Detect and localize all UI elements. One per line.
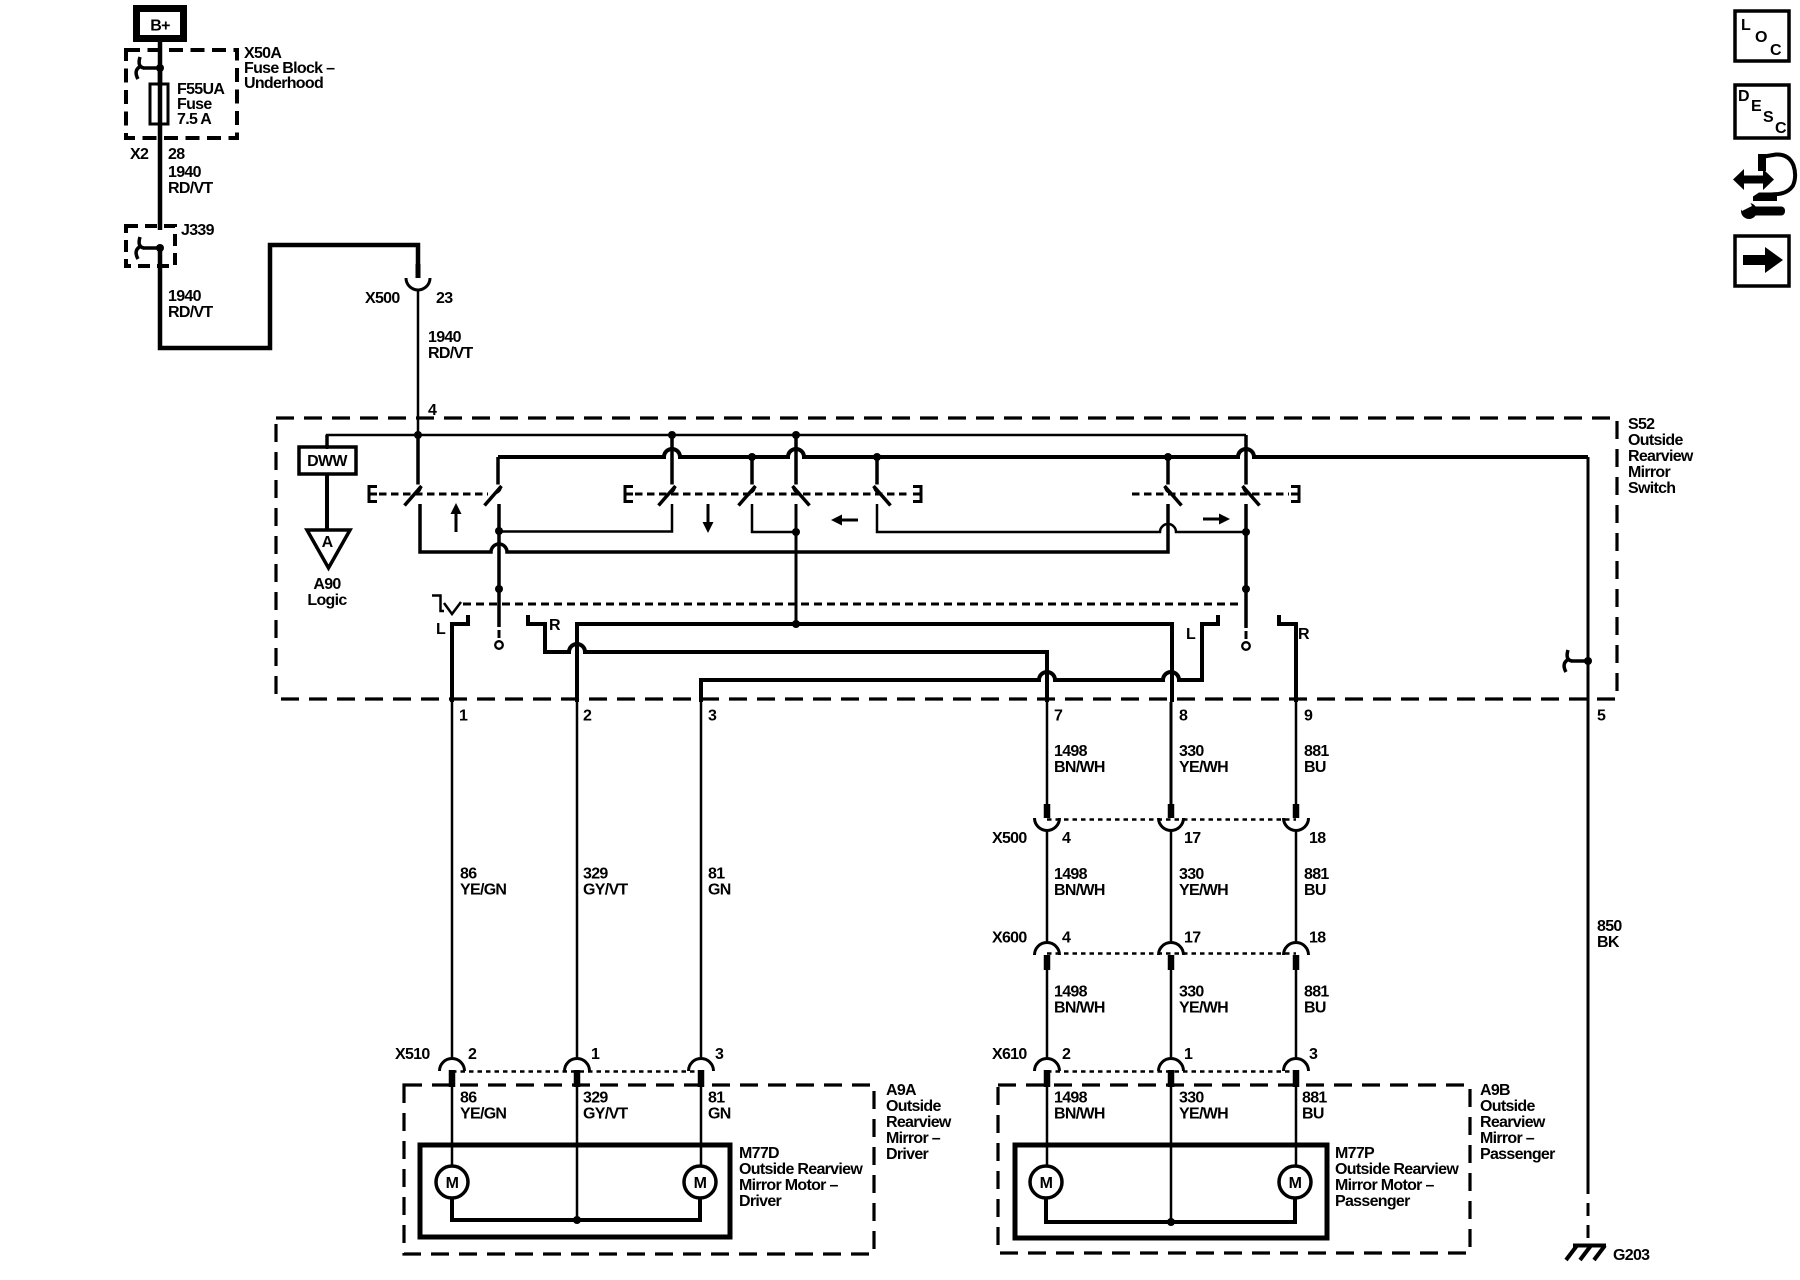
svg-text:BK: BK <box>1597 934 1620 951</box>
gang bar dashed (up pair) <box>379 493 488 496</box>
connector X2 cavity 28 labels <box>130 146 185 163</box>
wire: up-right fixed contact / left selector pole <box>497 504 501 627</box>
wire B+ to fuse block <box>158 42 163 86</box>
svg-text:L: L <box>1741 17 1751 34</box>
svg-text:E: E <box>1751 98 1762 115</box>
svg-text:881: 881 <box>1302 1090 1327 1107</box>
switch blade right-left (movable contact) <box>1165 457 1182 506</box>
svg-text:9: 9 <box>1304 708 1313 725</box>
svg-text:RD/VT: RD/VT <box>428 345 473 362</box>
connector X510 pin 2 symbol <box>440 1059 465 1088</box>
switch blade left-left (movable contact) <box>793 435 810 506</box>
wire 81 GN pin3 to X510-3 <box>700 702 703 1059</box>
connector X610 pin 1 symbol <box>1159 1059 1184 1088</box>
left selector pole lower part with open contact o <box>495 585 503 649</box>
switch blade down-right (movable contact) <box>739 457 756 506</box>
wires into M77D <box>452 1087 701 1220</box>
svg-text:18: 18 <box>1309 930 1326 947</box>
svg-text:BU: BU <box>1304 882 1326 899</box>
X600 labels <box>992 930 1326 947</box>
wire: pole-left to down-left fixed contact <box>499 504 672 532</box>
svg-text:330: 330 <box>1179 743 1204 760</box>
svg-text:3: 3 <box>715 1046 724 1063</box>
svg-text:S: S <box>1763 109 1774 126</box>
svg-text:YE/WH: YE/WH <box>1179 882 1228 899</box>
switch blade down-left (movable contact) <box>659 435 676 506</box>
svg-text:81: 81 <box>708 1090 725 1107</box>
connector X610 dashed tie line <box>1047 1070 1296 1073</box>
wire 329 GY/VT pin2 to X510-1 <box>576 702 579 1059</box>
gang bar bracket E (down-left pairs) <box>625 487 633 502</box>
svg-text:1: 1 <box>591 1046 600 1063</box>
svg-text:RD/VT: RD/VT <box>168 304 213 321</box>
svg-text:81: 81 <box>708 866 725 883</box>
svg-text:Outside: Outside <box>1628 432 1683 449</box>
node: blade down-left to power bus <box>668 431 676 439</box>
dashed wire continuation to ground <box>1587 1181 1590 1245</box>
exchange-wrench icon <box>1733 154 1795 219</box>
svg-text:Rearview: Rearview <box>1628 448 1694 465</box>
svg-text:4: 4 <box>1062 830 1071 847</box>
X500 23 labels <box>365 290 453 307</box>
F55UA label <box>177 81 225 128</box>
splice J339 dashed box <box>126 226 175 266</box>
svg-text:330: 330 <box>1179 1090 1204 1107</box>
svg-text:Outside Rearview: Outside Rearview <box>1335 1161 1459 1178</box>
M77P mirror motor box <box>1015 1145 1327 1238</box>
svg-text:329: 329 <box>583 866 608 883</box>
svg-text:GY/VT: GY/VT <box>583 1106 628 1123</box>
svg-text:X2: X2 <box>130 146 149 163</box>
connector X500 pin 4 symbol <box>1035 804 1060 830</box>
terminal hook at fuse block input <box>136 57 164 79</box>
svg-text:X500: X500 <box>365 290 400 307</box>
node: common junction passenger <box>1167 1218 1175 1226</box>
connector X610 pin 2 symbol <box>1035 1059 1060 1088</box>
svg-text:YE/GN: YE/GN <box>460 1106 506 1123</box>
wire labels inside A9A <box>460 1090 731 1123</box>
node: pin4 power junction <box>414 431 422 439</box>
connector X600 pin 17 symbol <box>1159 943 1184 971</box>
wire label 850 BK <box>1597 918 1622 951</box>
svg-text:329: 329 <box>583 1090 608 1107</box>
svg-text:DWW: DWW <box>307 453 348 470</box>
svg-text:J339: J339 <box>181 222 215 239</box>
S52 outside rearview mirror switch dashed box <box>276 418 1617 699</box>
svg-text:1940: 1940 <box>168 164 202 181</box>
selector actuator symbol <box>432 596 461 615</box>
svg-text:YE/GN: YE/GN <box>460 882 506 899</box>
connector X500 dashed tie line <box>1047 818 1296 821</box>
svg-text:B+: B+ <box>150 18 170 35</box>
connector X500 pin 17 symbol <box>1159 804 1184 830</box>
svg-text:L: L <box>1186 626 1196 643</box>
wire: down-right fixed contact <box>752 504 796 532</box>
svg-text:X510: X510 <box>395 1046 430 1063</box>
svg-text:2: 2 <box>468 1046 477 1063</box>
power bus wire (top) <box>327 435 1246 449</box>
fuse block X50A dashed box <box>126 50 237 138</box>
wire 1940 RD/VT fuse to J339 <box>158 150 163 230</box>
svg-text:Underhood: Underhood <box>244 75 323 92</box>
svg-text:Outside: Outside <box>886 1098 941 1115</box>
A90 logic triangle symbol <box>307 530 350 568</box>
X610 labels <box>992 1046 1318 1063</box>
wire through fuse <box>158 68 163 150</box>
svg-text:M: M <box>1040 1175 1053 1192</box>
ground bus wire (second) with hops <box>498 449 1588 457</box>
svg-text:BN/WH: BN/WH <box>1054 882 1105 899</box>
svg-text:Driver: Driver <box>739 1193 782 1210</box>
motor M left passenger <box>1030 1166 1062 1198</box>
svg-text:Logic: Logic <box>307 592 347 609</box>
wire labels inside A9B <box>1054 1090 1327 1123</box>
A9A outside rearview mirror driver dashed box <box>404 1085 874 1254</box>
wires X600 to X610 <box>1047 970 1296 1059</box>
wire labels 86 YE/GN 329 GY/VT 81 GN <box>460 866 731 899</box>
svg-text:A90: A90 <box>313 576 341 593</box>
svg-text:5: 5 <box>1597 708 1606 725</box>
connector X510 dashed tie line <box>452 1070 701 1073</box>
svg-text:1498: 1498 <box>1054 866 1088 883</box>
svg-text:GN: GN <box>708 1106 731 1123</box>
wire 1940 RD/VT into switch pin 4 <box>417 290 420 435</box>
wire labels second run <box>1054 866 1329 899</box>
selector gang dashed bar <box>463 603 1238 606</box>
svg-text:A9B: A9B <box>1480 1082 1510 1099</box>
svg-text:2: 2 <box>583 708 592 725</box>
svg-text:YE/WH: YE/WH <box>1179 1000 1228 1017</box>
svg-text:Rearview: Rearview <box>886 1114 952 1131</box>
svg-text:Outside: Outside <box>1480 1098 1535 1115</box>
node: blade left-left to power bus <box>792 431 800 439</box>
node: right pole top junction <box>1242 528 1250 536</box>
switch blade up-right (movable contact) <box>485 457 502 506</box>
connector X600 pin 4 symbol <box>1035 943 1060 971</box>
svg-text:Mirror Motor –: Mirror Motor – <box>1335 1177 1434 1194</box>
svg-text:C: C <box>1770 42 1782 59</box>
M77P label <box>1335 1145 1459 1210</box>
wire label 1940 RD/VT <box>428 329 473 362</box>
svg-text:O: O <box>1755 29 1767 46</box>
A9A label <box>886 1082 952 1163</box>
node: left-left fixed on pin2-pin8 wire <box>792 620 800 628</box>
svg-text:Mirror: Mirror <box>1628 464 1671 481</box>
svg-text:M77P: M77P <box>1335 1145 1375 1162</box>
svg-text:Driver: Driver <box>886 1146 929 1163</box>
svg-text:17: 17 <box>1184 930 1201 947</box>
M77D label <box>739 1145 863 1210</box>
svg-text:1498: 1498 <box>1054 743 1088 760</box>
svg-text:M: M <box>694 1175 707 1192</box>
svg-text:86: 86 <box>460 1090 477 1107</box>
svg-text:28: 28 <box>168 146 185 163</box>
svg-text:3: 3 <box>1309 1046 1318 1063</box>
connector X600 pin 18 symbol <box>1284 943 1309 971</box>
svg-text:7: 7 <box>1054 708 1063 725</box>
switch blade right-right (movable contact) <box>1243 435 1260 506</box>
wire J339 to connector X500 pin 23 <box>160 245 418 348</box>
svg-text:GY/VT: GY/VT <box>583 882 628 899</box>
left arrow <box>831 515 858 526</box>
wire: left-right fixed contact to right selector pole <box>877 504 1246 532</box>
svg-text:23: 23 <box>436 290 453 307</box>
wire labels third run <box>1054 984 1329 1017</box>
terminal hook at J339 <box>136 237 164 259</box>
svg-text:X610: X610 <box>992 1046 1027 1063</box>
wire: switch pin 3 to right selector L throw <box>701 615 1218 702</box>
svg-text:1498: 1498 <box>1054 984 1088 1001</box>
fuse F55UA 7.5A <box>150 84 168 124</box>
gang bar dashed (right pair) <box>1132 493 1289 496</box>
X50A label <box>244 45 335 92</box>
svg-text:BU: BU <box>1302 1106 1324 1123</box>
LOC icon box <box>1735 11 1789 61</box>
wire 881 BU pin9 to X500-18 <box>1295 702 1298 806</box>
svg-text:BN/WH: BN/WH <box>1054 759 1105 776</box>
M77D mirror motor box <box>420 1145 730 1237</box>
svg-text:330: 330 <box>1179 984 1204 1001</box>
svg-text:1940: 1940 <box>428 329 462 346</box>
svg-text:L: L <box>436 621 446 638</box>
svg-text:YE/WH: YE/WH <box>1179 1106 1228 1123</box>
down arrow <box>703 504 714 533</box>
svg-text:18: 18 <box>1309 830 1326 847</box>
A90 Logic label <box>307 576 347 609</box>
wire 1498 BN/WH pin7 to X500-4 <box>1046 702 1049 806</box>
gang bar bracket ] (down-left pairs) <box>913 487 921 502</box>
node: blade down-right to ground bus <box>748 453 756 461</box>
svg-text:C: C <box>1775 120 1787 137</box>
svg-text:4: 4 <box>1062 930 1071 947</box>
right arrow <box>1203 514 1230 525</box>
gang bar dashed (down-left pairs) <box>635 493 911 496</box>
wire: left-left fixed contact drop <box>795 504 798 624</box>
motor M right passenger <box>1279 1166 1311 1198</box>
svg-text:Switch: Switch <box>1628 480 1675 497</box>
switch pin labels 1 2 3 7 8 9 5 <box>459 708 1606 725</box>
svg-text:Passenger: Passenger <box>1335 1193 1410 1210</box>
switch blade left-right (movable contact) <box>874 457 891 506</box>
connector X510 pin 3 symbol <box>689 1059 714 1088</box>
svg-text:M: M <box>446 1175 459 1192</box>
svg-text:R: R <box>549 617 561 634</box>
connector X500 pin 23 symbol <box>406 264 430 290</box>
svg-text:Mirror –: Mirror – <box>1480 1130 1535 1147</box>
svg-text:A: A <box>322 534 334 551</box>
motor M right (left/right) <box>684 1166 716 1198</box>
X500 labels <box>992 830 1326 847</box>
connector X600 dashed tie line <box>1047 952 1296 955</box>
wire: right-right fixed contact / right selector pole <box>1244 504 1248 628</box>
svg-text:G203: G203 <box>1613 1247 1650 1264</box>
node: down-right fixed to left-left fixed wire <box>792 528 800 536</box>
svg-text:RD/VT: RD/VT <box>168 180 213 197</box>
svg-text:Mirror Motor –: Mirror Motor – <box>739 1177 838 1194</box>
svg-text:881: 881 <box>1304 866 1329 883</box>
svg-text:M77D: M77D <box>739 1145 779 1162</box>
node: common junction <box>573 1216 581 1224</box>
node: blade left-right to ground bus <box>873 453 881 461</box>
svg-text:330: 330 <box>1179 866 1204 883</box>
A9B label <box>1480 1082 1555 1163</box>
wire: up-left fixed contact to right-left fixed contact <box>420 504 1168 552</box>
left selector L throw to switch pin 1 <box>452 615 468 702</box>
svg-text:1: 1 <box>459 708 468 725</box>
svg-text:Rearview: Rearview <box>1480 1114 1546 1131</box>
svg-text:1498: 1498 <box>1054 1090 1088 1107</box>
svg-text:1940: 1940 <box>168 288 202 305</box>
gang bar bracket E (up pair) <box>369 487 377 502</box>
svg-text:2: 2 <box>1062 1046 1071 1063</box>
right selector pole lower part with open contact o <box>1242 585 1250 650</box>
svg-text:X600: X600 <box>992 930 1027 947</box>
motor common wire passenger <box>1046 1198 1295 1222</box>
svg-text:M: M <box>1289 1175 1302 1192</box>
svg-text:881: 881 <box>1304 743 1329 760</box>
svg-text:17: 17 <box>1184 830 1201 847</box>
svg-text:R: R <box>1298 626 1310 643</box>
svg-text:7.5 A: 7.5 A <box>177 111 212 128</box>
S52 label <box>1628 416 1694 497</box>
up arrow <box>451 503 462 532</box>
svg-text:8: 8 <box>1179 708 1188 725</box>
svg-text:D: D <box>1738 88 1749 105</box>
connector X510 pin 1 symbol <box>565 1059 590 1088</box>
wire 330 YE/WH pin8 to X500-17 <box>1170 702 1173 806</box>
svg-text:BN/WH: BN/WH <box>1054 1000 1105 1017</box>
svg-text:86: 86 <box>460 866 477 883</box>
gang bar bracket ] (right pair) <box>1291 487 1299 502</box>
DESC icon box <box>1735 85 1789 138</box>
svg-text:881: 881 <box>1304 984 1329 1001</box>
connector X610 pin 3 symbol <box>1284 1059 1309 1088</box>
X510 labels <box>395 1046 724 1063</box>
battery feed B+ <box>137 9 184 39</box>
left selector R throw wire to switch pin 7 <box>528 615 1047 702</box>
svg-text:Outside Rearview: Outside Rearview <box>739 1161 863 1178</box>
motor common wire <box>452 1198 700 1220</box>
svg-text:S52: S52 <box>1628 416 1655 433</box>
svg-text:3: 3 <box>708 708 717 725</box>
wire 86 YE/GN pin1 to X510-2 <box>451 702 454 1059</box>
wires X500 to X600 <box>1047 831 1296 943</box>
svg-text:1: 1 <box>1184 1046 1193 1063</box>
wire: switch pin 2 to pin 8 <box>577 624 1172 702</box>
ground G203 symbol <box>1566 1246 1606 1261</box>
svg-text:BU: BU <box>1304 759 1326 776</box>
wires into M77P <box>1047 1087 1296 1222</box>
svg-text:GN: GN <box>708 882 731 899</box>
motor M left (up/down) <box>436 1166 468 1198</box>
DWW illumination box <box>299 447 356 474</box>
A9B outside rearview mirror passenger dashed box <box>998 1085 1470 1253</box>
wire DWW to A90 <box>325 474 329 530</box>
svg-text:A9A: A9A <box>886 1082 917 1099</box>
wire label 1940 RD/VT <box>168 164 213 197</box>
svg-text:Mirror –: Mirror – <box>886 1130 941 1147</box>
svg-text:850: 850 <box>1597 918 1622 935</box>
wire labels 1498 BN/WH 330 YE/WH 881 BU <box>1054 743 1329 776</box>
wire label 1940 RD/VT below J339 <box>168 288 213 321</box>
connector X500 pin 18 symbol <box>1284 804 1309 830</box>
node: pole-left top junction <box>495 527 503 535</box>
svg-text:X500: X500 <box>992 830 1027 847</box>
svg-text:Passenger: Passenger <box>1480 1146 1555 1163</box>
wire 850 BK pin5 to ground <box>1587 702 1590 1184</box>
svg-text:BN/WH: BN/WH <box>1054 1106 1105 1123</box>
svg-text:YE/WH: YE/WH <box>1179 759 1228 776</box>
node: blade right-left to ground bus <box>1164 453 1172 461</box>
right selector R throw to switch pin 9 <box>1279 615 1296 702</box>
ground wire to pin 5 with terminal hook <box>1564 457 1592 702</box>
switch blade up-left (movable contact) <box>405 435 422 506</box>
svg-text:BU: BU <box>1304 1000 1326 1017</box>
forward arrow icon box <box>1735 236 1789 286</box>
